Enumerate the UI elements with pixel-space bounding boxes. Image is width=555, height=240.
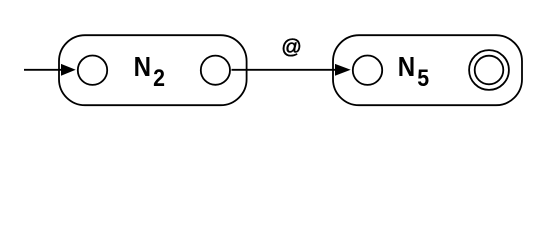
svg-text:@: @ bbox=[281, 37, 302, 59]
svg-text:N: N bbox=[134, 50, 151, 82]
svg-text:2: 2 bbox=[153, 63, 165, 91]
svg-text:5: 5 bbox=[417, 63, 429, 91]
svg-text:N: N bbox=[398, 50, 415, 82]
